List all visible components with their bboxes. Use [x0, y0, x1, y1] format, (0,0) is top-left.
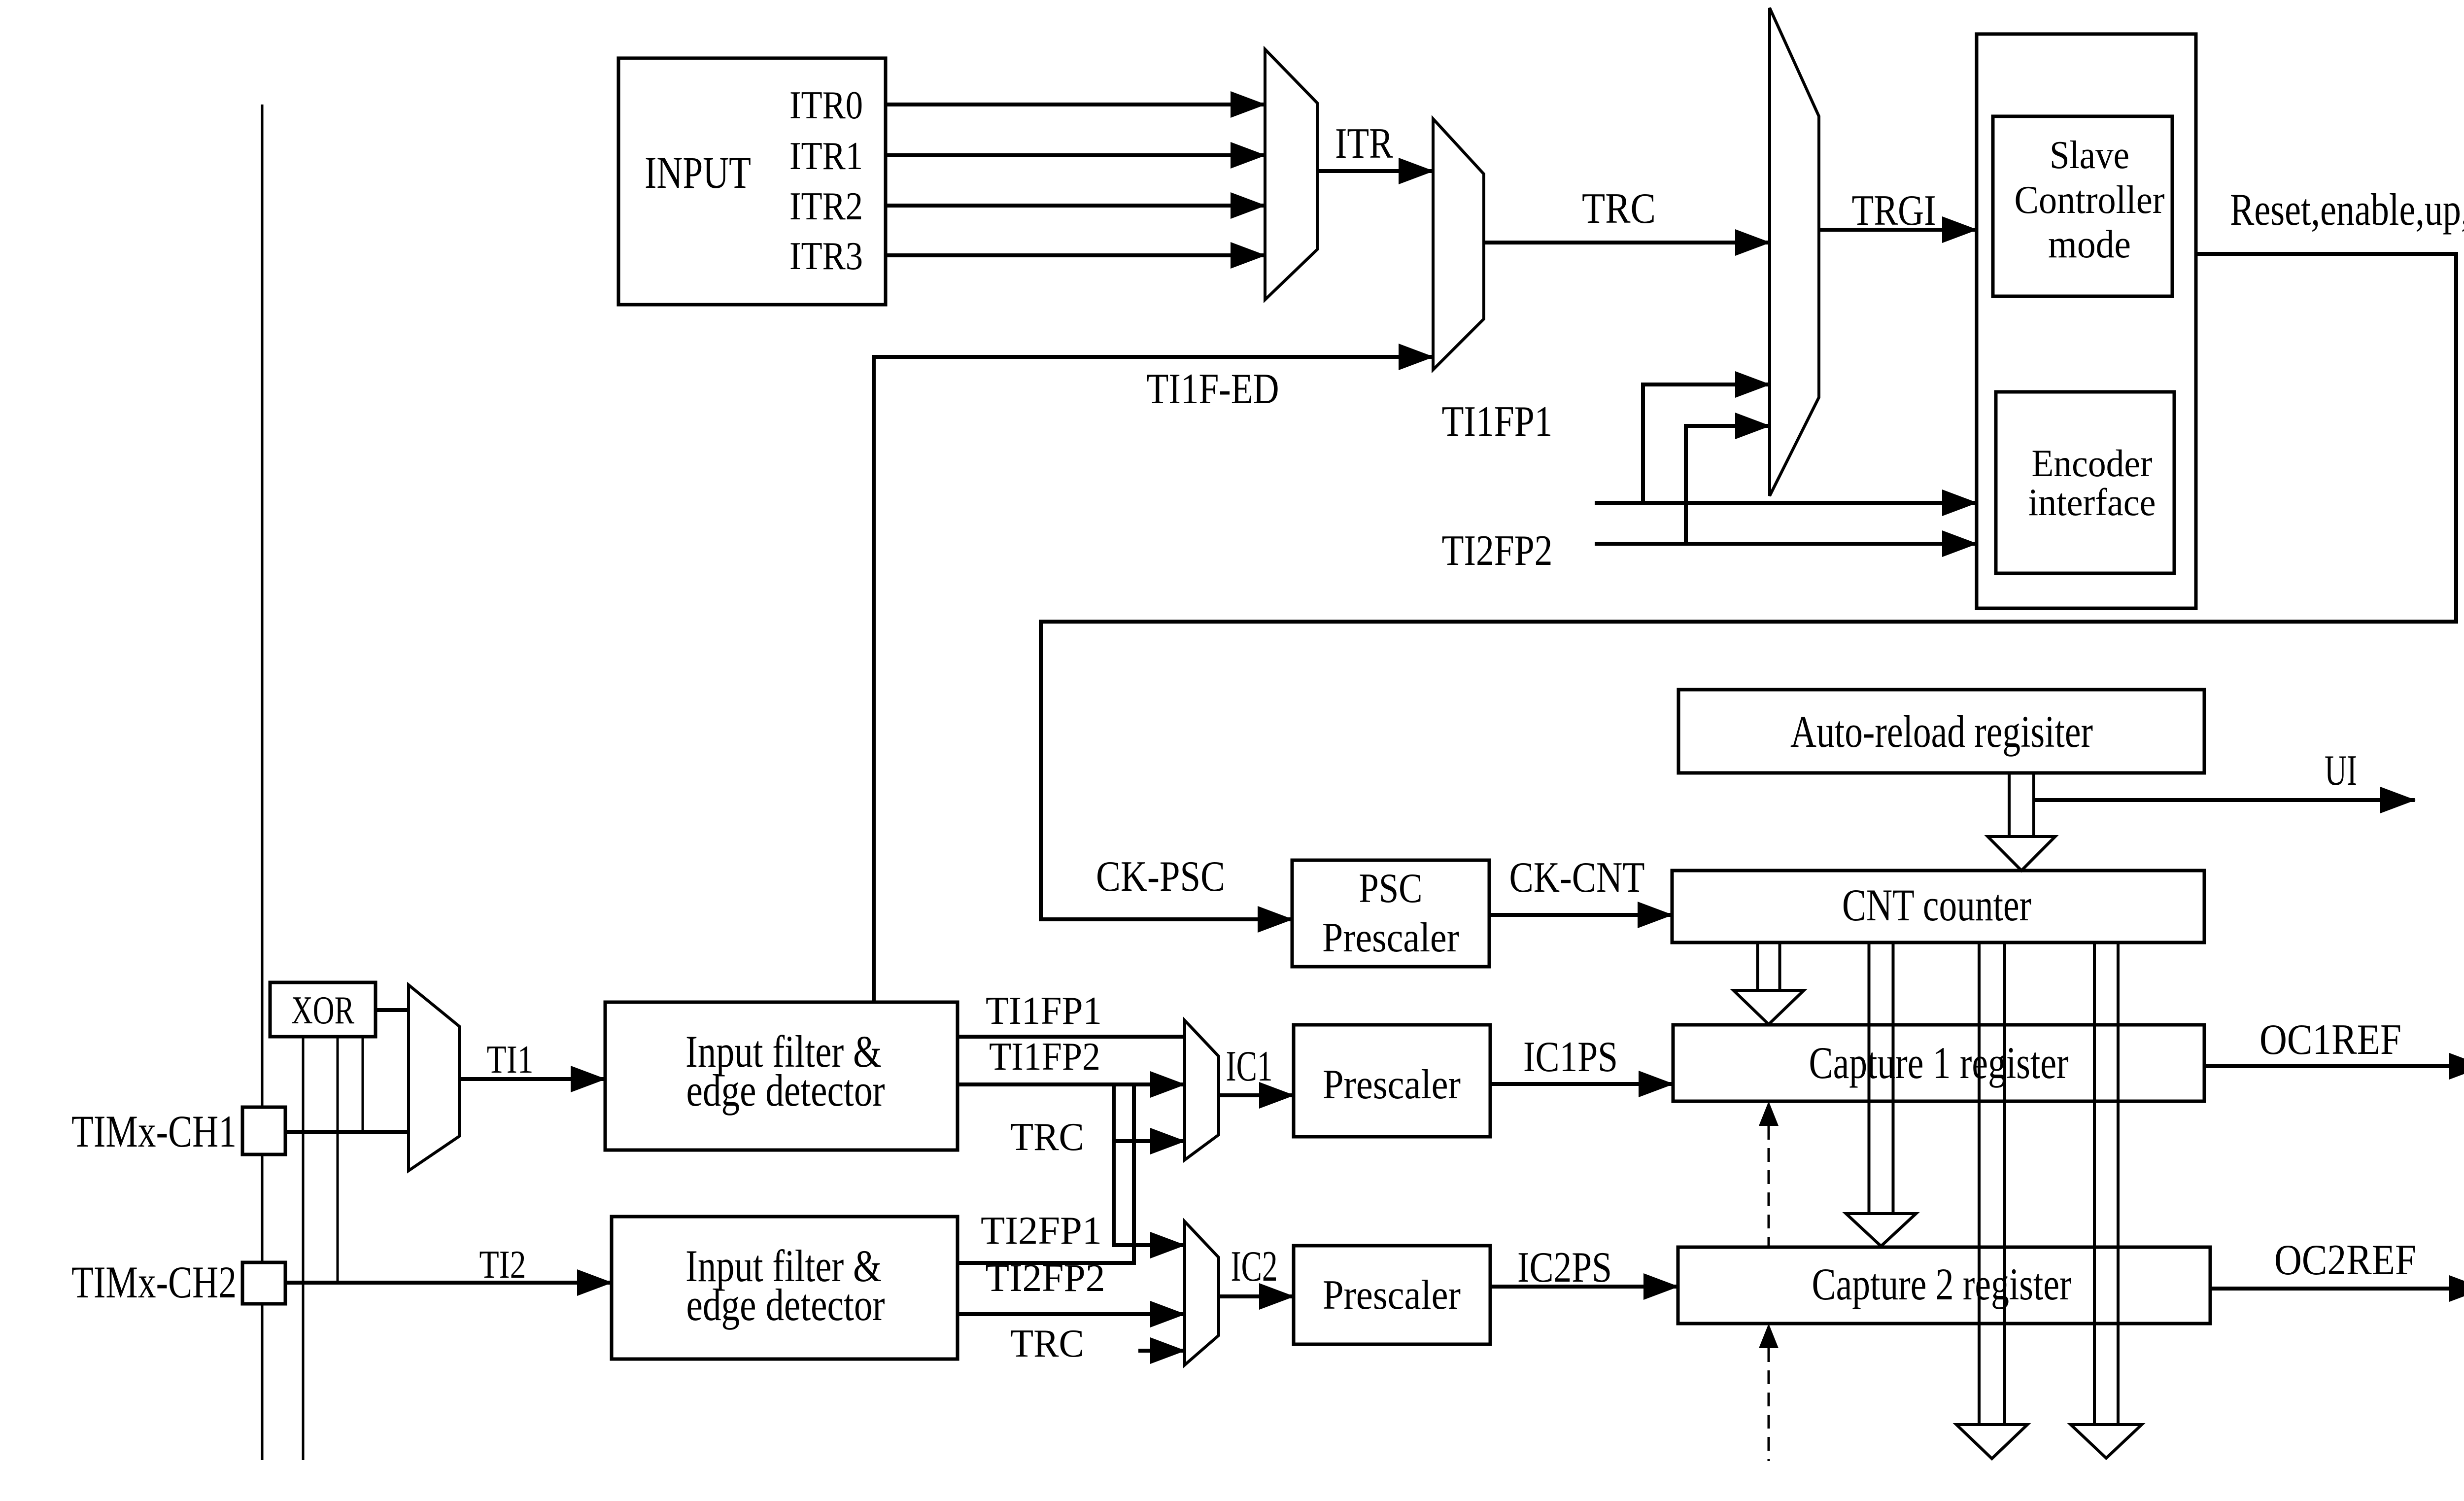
- mux IC1: [1185, 1020, 1219, 1160]
- prescaler 2 box: [1294, 1246, 1490, 1344]
- svg-text:TI1FP1: TI1FP1: [986, 989, 1102, 1033]
- svg-text:TI1FP2: TI1FP2: [989, 1035, 1100, 1079]
- dashed line below capture2: [1768, 1348, 1770, 1461]
- wire CK-CNT: [1489, 913, 1672, 917]
- wire TI1FP1 feed: [1595, 501, 1977, 505]
- pin TIMx-CH2 left: [242, 1262, 285, 1304]
- mux trigger: [1770, 8, 1819, 496]
- svg-text:IC1PS: IC1PS: [1523, 1033, 1618, 1081]
- svg-text:TI2FP1: TI2FP1: [981, 1209, 1102, 1253]
- svg-text:IC1: IC1: [1226, 1043, 1273, 1090]
- mux TI1-select: [409, 985, 459, 1171]
- mux ITR-select: [1265, 49, 1317, 300]
- XOR stub to CH1 line: [362, 1037, 364, 1132]
- wire TIMx-CH1 to mux: [285, 1130, 409, 1134]
- INPUT box: [618, 58, 886, 305]
- dashed arrow into capture1: [1759, 1101, 1779, 1126]
- svg-text:interface: interface: [2028, 481, 2156, 524]
- wire TI1FP2 drop: [1114, 1084, 1185, 1245]
- auto-reload register box: [1678, 690, 2204, 773]
- slave controller mode box: [1993, 116, 2172, 296]
- svg-text:IC2: IC2: [1231, 1243, 1278, 1291]
- wire TI1FP2: [958, 1082, 1185, 1086]
- svg-text:TIMx-CH2: TIMx-CH2: [71, 1257, 237, 1307]
- wire TI1FP1 branch: [1643, 384, 1770, 503]
- svg-text:TRC: TRC: [1582, 185, 1656, 233]
- wire ITR3: [886, 253, 1265, 257]
- wire ITR: [1317, 169, 1433, 173]
- wire ITR1: [886, 153, 1265, 157]
- wire TRC to IC1 mux: [1114, 1139, 1185, 1143]
- wire XOR to mux: [376, 1008, 409, 1012]
- wire TI2FP2 to IC2 mux: [958, 1312, 1185, 1316]
- svg-text:ITR1: ITR1: [789, 135, 863, 178]
- XOR box: [270, 982, 376, 1037]
- dashed arrow into capture2: [1759, 1324, 1779, 1348]
- svg-text:OC1REF: OC1REF: [2259, 1016, 2401, 1064]
- wire TI2FP2 feed: [1595, 542, 1977, 546]
- svg-text:Reset,enable,up,count: Reset,enable,up,count: [2230, 184, 2464, 235]
- wire OC1REF: [2204, 1064, 2464, 1068]
- XOR stub to TI2 line: [337, 1037, 339, 1283]
- svg-text:PSC: PSC: [1359, 865, 1423, 911]
- svg-text:TRC: TRC: [1010, 1116, 1084, 1159]
- hollow arrow CNT to capture2: [1868, 942, 1871, 1214]
- capture 2 register box: [1678, 1247, 2210, 1324]
- wire ITR0: [886, 103, 1265, 106]
- svg-text:IC2PS: IC2PS: [1517, 1244, 1612, 1292]
- svg-text:mode: mode: [2048, 223, 2131, 266]
- mux IC2: [1185, 1222, 1219, 1365]
- hollow arrow CNT down-right: [2093, 942, 2096, 1425]
- svg-text:TI2FP2: TI2FP2: [986, 1257, 1105, 1300]
- wire OC2REF: [2210, 1287, 2464, 1291]
- svg-text:TI2FP2: TI2FP2: [1442, 527, 1553, 575]
- capture 1 register box: [1673, 1025, 2204, 1101]
- left input rail: [261, 105, 264, 1460]
- wire IC1: [1219, 1093, 1294, 1097]
- svg-text:Prescaler: Prescaler: [1323, 1272, 1461, 1318]
- svg-text:Encoder: Encoder: [2032, 442, 2153, 485]
- svg-text:Auto-reload regisiter: Auto-reload regisiter: [1790, 706, 2093, 757]
- dashed line capture1-capture2: [1768, 1126, 1770, 1247]
- svg-text:OC2REF: OC2REF: [2274, 1236, 2416, 1284]
- input filter 1 box: [605, 1002, 958, 1150]
- wire TRGI: [1819, 228, 1977, 232]
- PSC prescaler box: [1292, 860, 1489, 967]
- svg-text:TIMx-CH1: TIMx-CH1: [71, 1106, 237, 1156]
- wire IC2PS: [1490, 1285, 1678, 1289]
- svg-text:INPUT: INPUT: [645, 147, 751, 198]
- wire TI1FP1 to IC1 mux: [958, 1035, 1185, 1039]
- svg-text:ITR2: ITR2: [789, 185, 863, 228]
- svg-text:CK-PSC: CK-PSC: [1096, 853, 1225, 901]
- svg-text:Capture 1 register: Capture 1 register: [1809, 1038, 2069, 1088]
- wire IC2: [1219, 1294, 1294, 1298]
- pin TIMx-CH1 left: [242, 1107, 285, 1154]
- svg-text:ITR3: ITR3: [789, 235, 863, 278]
- wire ITR2: [886, 204, 1265, 208]
- svg-text:XOR: XOR: [291, 989, 354, 1032]
- svg-text:Prescaler: Prescaler: [1322, 914, 1459, 961]
- wire slave feedback to CK-PSC: [1041, 254, 2456, 919]
- wire TI2: [285, 1281, 612, 1285]
- wire UI: [2034, 798, 2415, 802]
- mux TRC-select: [1433, 119, 1484, 370]
- svg-text:UI: UI: [2325, 747, 2357, 795]
- svg-text:edge detector: edge detector: [686, 1065, 885, 1116]
- svg-text:Slave: Slave: [2050, 134, 2129, 177]
- hollow arrow CNT down-left: [1978, 942, 1981, 1425]
- encoder interface box: [1996, 392, 2174, 573]
- svg-text:Prescaler: Prescaler: [1323, 1061, 1461, 1108]
- wire IC1PS: [1490, 1082, 1673, 1086]
- svg-text:Controller: Controller: [2015, 178, 2165, 222]
- svg-text:TI1: TI1: [487, 1038, 534, 1082]
- hollow arrow CNT to capture1: [1756, 942, 1759, 990]
- prescaler 1 box: [1294, 1025, 1490, 1137]
- svg-text:edge detector: edge detector: [686, 1280, 885, 1330]
- svg-text:TI1F-ED: TI1F-ED: [1147, 365, 1279, 413]
- slave controller outer box: [1977, 34, 2196, 608]
- svg-text:CNT counter: CNT counter: [1842, 880, 2031, 930]
- wire TRC to trigger mux: [1484, 241, 1770, 244]
- hollow arrow auto-reload to CNT: [2008, 773, 2011, 837]
- wire TI2FP2 branch: [1686, 426, 1770, 544]
- svg-text:TRGI: TRGI: [1852, 187, 1936, 235]
- svg-text:CK-CNT: CK-CNT: [1509, 854, 1645, 902]
- svg-text:Capture 2 register: Capture 2 register: [1812, 1259, 2072, 1309]
- svg-text:TRC: TRC: [1010, 1322, 1084, 1365]
- wire TI1F-ED: [874, 357, 1433, 1002]
- wire TI1: [459, 1077, 605, 1081]
- wire TI2FP1 rise: [958, 1084, 1134, 1263]
- CNT counter box: [1672, 871, 2204, 942]
- svg-text:TI2: TI2: [479, 1243, 526, 1287]
- svg-text:TI1FP1: TI1FP1: [1442, 398, 1553, 446]
- XOR stub rail2: [302, 1037, 305, 1460]
- svg-text:ITR: ITR: [1335, 120, 1393, 168]
- input filter 2 box: [612, 1217, 958, 1359]
- wire TRC to IC2 mux: [1138, 1349, 1185, 1353]
- svg-text:ITR0: ITR0: [789, 84, 863, 127]
